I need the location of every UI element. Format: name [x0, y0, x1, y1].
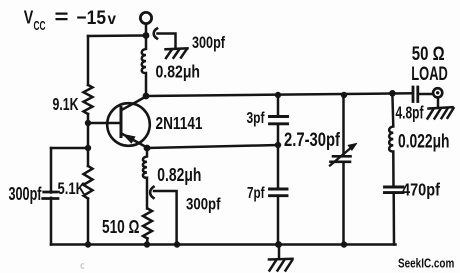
svg-text:−15: −15: [77, 7, 107, 29]
resistor R1 9.1K: [84, 85, 93, 114]
svg-text:v: v: [108, 11, 117, 28]
node load terminal center: [436, 91, 439, 94]
svg-text:510 Ω: 510 Ω: [102, 216, 140, 237]
inductor L3 0.022uh: [389, 95, 393, 188]
node base: [85, 120, 91, 126]
svg-text:50 Ω: 50 Ω: [412, 44, 445, 65]
wire 510 to bottom rail: [146, 239, 149, 245]
inductor L1 0.82uh (top): [142, 36, 146, 97]
wire top rail (collector): [146, 93, 413, 96]
svg-text:4.8pf: 4.8pf: [396, 103, 424, 123]
stray scan speck: [81, 264, 84, 269]
ground (bottom rail): [269, 245, 293, 271]
node 3pf/7pf mid: [275, 142, 281, 148]
svg-text:LOAD: LOAD: [411, 64, 448, 85]
inductor L2 0.82uh (bottom): [143, 148, 147, 209]
svg-text:300pf: 300pf: [9, 184, 43, 204]
node Vcc junction: [143, 32, 150, 39]
terminal load output: [433, 88, 442, 97]
ground (top 300pf): [166, 48, 188, 58]
svg-text:2N1141: 2N1141: [156, 113, 203, 133]
svg-text:CC: CC: [34, 18, 46, 33]
svg-text:0.82μh: 0.82μh: [156, 62, 201, 82]
svg-text:0.82μh: 0.82μh: [157, 165, 201, 185]
wire base lead: [88, 122, 121, 125]
terminal Vcc input: [140, 12, 151, 23]
wire left vertical lower: [87, 199, 90, 245]
node ground bottom: [275, 241, 282, 248]
wire bottom rail: [51, 243, 396, 246]
capacitor C8 4.8pf: [413, 87, 433, 102]
capacitor C7 470pf: [385, 187, 404, 245]
svg-text:2.7-30pf: 2.7-30pf: [284, 130, 341, 151]
ground (load): [428, 107, 454, 118]
svg-text:=: =: [55, 7, 69, 29]
capacitor C5 7pf: [270, 145, 288, 245]
node left mid junction: [85, 145, 91, 151]
node emitter bottom: [144, 241, 150, 247]
capacitor C4 3pf: [270, 95, 288, 145]
node emitter: [144, 145, 151, 152]
svg-text:9.1K: 9.1K: [53, 94, 79, 114]
label Vcc = -15v: [24, 7, 117, 34]
node 4.8pf junction: [389, 90, 396, 97]
transistor Q1 2N1141: [107, 97, 150, 148]
svg-text:5.1K: 5.1K: [58, 180, 86, 198]
node collector: [143, 93, 150, 100]
resistor R3 510ohm: [143, 209, 152, 239]
svg-text:470pf: 470pf: [402, 179, 440, 199]
wire terminal stem: [145, 24, 148, 36]
wire load terminal stem: [437, 98, 440, 108]
node 3pf top: [275, 92, 281, 98]
capacitor C3 300pf feed-through plate (bottom): [150, 187, 153, 198]
wire 300pf branch vertical upper: [50, 148, 53, 193]
wire 300pf branch horizontal: [51, 147, 88, 150]
wire top-left horizontal from Vcc node to left rail: [88, 34, 146, 37]
capacitor C2 300pf feed-through plate (top): [154, 29, 157, 39]
svg-text:7pf: 7pf: [247, 185, 265, 202]
svg-text:0.022μh: 0.022μh: [398, 132, 450, 153]
svg-text:SeekIC.com: SeekIC.com: [398, 256, 454, 271]
wire left vertical to resistor 5.1K: [87, 148, 90, 166]
wire 300pf branch vertical lower: [50, 198, 53, 245]
wire feed-through to ground (top): [158, 34, 176, 49]
svg-text:300pf: 300pf: [192, 34, 225, 52]
svg-text:300pf: 300pf: [186, 196, 221, 214]
capacitor C1 300pf (left): [44, 191, 57, 194]
wire emitter rail: [147, 145, 278, 148]
node varcap bottom: [341, 241, 347, 247]
wire base node segment: [87, 114, 90, 148]
wire feed-through branch (bottom): [154, 191, 177, 245]
svg-text:V: V: [24, 7, 34, 28]
variable capacitor C6 2.7-30pf: [330, 95, 357, 245]
svg-text:3pf: 3pf: [247, 110, 266, 127]
node left bottom junction: [85, 241, 91, 247]
node varcap top: [341, 92, 347, 98]
node tap bottom: [174, 241, 180, 247]
wire left vertical upper (to resistor 9.1K): [87, 36, 90, 85]
resistor R2 5.1K: [84, 166, 93, 199]
